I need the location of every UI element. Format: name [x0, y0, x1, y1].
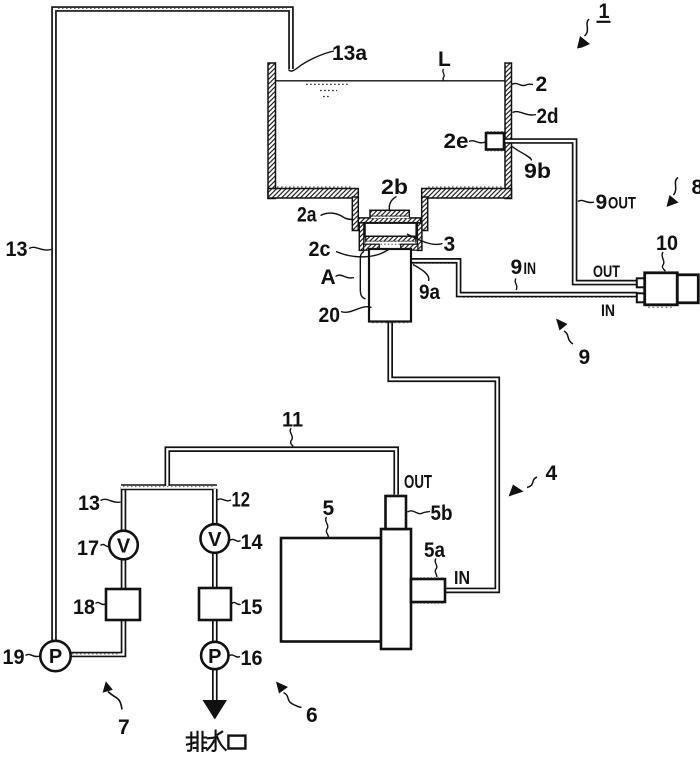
- white bar under 3: [366, 241, 416, 244]
- svg-text:2e: 2e: [444, 130, 469, 153]
- fitting 2c right block: [401, 244, 418, 250]
- drain arrow: [203, 700, 228, 720]
- svg-text:18: 18: [73, 596, 95, 619]
- wire pipe 11: [167, 449, 396, 496]
- cup body: [365, 223, 417, 237]
- wire pipe 12 segments: [212, 489, 218, 525]
- unit 18 box: [106, 589, 140, 620]
- arrow 8: [674, 178, 679, 196]
- svg-text:10: 10: [656, 232, 678, 255]
- svg-text:IN: IN: [454, 568, 470, 588]
- arrow 6: [284, 693, 302, 708]
- tank 2 right wall: [505, 63, 512, 199]
- pump 5 head block: [381, 529, 411, 649]
- pump 5 outlet port 5b: [386, 496, 407, 529]
- svg-text:19: 19: [3, 646, 25, 669]
- svg-text:5b: 5b: [431, 502, 453, 525]
- svg-text:OUT: OUT: [608, 195, 636, 213]
- fitting 2c left block: [364, 244, 380, 250]
- wire pump19 outlet to unit18: [70, 620, 124, 655]
- drain outlet text: [187, 731, 226, 752]
- svg-text:2b: 2b: [381, 176, 408, 199]
- svg-text:9: 9: [596, 191, 608, 214]
- unit 15 box: [199, 588, 231, 620]
- chiller unit 10 rear body: [677, 275, 698, 303]
- tank 2 bottom left strip: [268, 189, 358, 199]
- svg-text:13: 13: [78, 492, 100, 515]
- wire pipe 13 (tank feed, top + left run): [54, 9, 291, 642]
- valve V14: [201, 524, 230, 553]
- svg-text:15: 15: [241, 596, 263, 619]
- arrow 1: [585, 19, 590, 36]
- wire pipe 9OUT: [504, 141, 638, 283]
- svg-text:IN: IN: [601, 301, 615, 320]
- svg-text:A: A: [321, 266, 336, 289]
- svg-text:IN: IN: [524, 260, 537, 278]
- pump P19: [40, 641, 70, 671]
- wire valve17 to manifold: [121, 487, 127, 532]
- svg-text:1: 1: [599, 0, 610, 23]
- svg-text:2a: 2a: [297, 204, 317, 227]
- manifold junction pipe: [121, 484, 217, 490]
- white bar under 2b: [371, 216, 409, 218]
- pump P16: [201, 642, 228, 669]
- svg-text:OUT: OUT: [404, 472, 432, 492]
- svg-text:16: 16: [241, 647, 263, 670]
- chiller unit 10 main body: [645, 273, 678, 305]
- filter bar 3: [366, 236, 416, 241]
- svg-text:9b: 9b: [524, 160, 551, 183]
- valve V17: [109, 531, 138, 560]
- sump step wall left: [352, 197, 358, 231]
- svg-text:5a: 5a: [424, 539, 445, 562]
- drain outlet text kuchi: [228, 736, 245, 749]
- svg-text:OUT: OUT: [593, 262, 620, 281]
- lid 2b bar: [370, 210, 409, 216]
- svg-text:L: L: [438, 48, 451, 71]
- svg-text:9a: 9a: [419, 281, 440, 304]
- chiller unit 10 OUT port: [637, 278, 645, 287]
- svg-text:P: P: [208, 646, 221, 668]
- wire pipe 4 loop: [390, 322, 497, 591]
- sump casing left: [359, 223, 364, 251]
- tank floor dotted texture: [277, 186, 504, 188]
- wire unit18 to valve17: [121, 559, 127, 590]
- svg-text:V: V: [117, 535, 131, 557]
- svg-text:9: 9: [511, 256, 523, 279]
- svg-text:V: V: [208, 529, 222, 551]
- liquid surface dots: [306, 84, 348, 96]
- settling vessel 20: [369, 249, 411, 322]
- svg-text:20: 20: [319, 304, 341, 327]
- svg-text:2c: 2c: [309, 238, 331, 261]
- bracket A: [360, 252, 365, 300]
- svg-text:14: 14: [241, 531, 263, 554]
- sump casing right: [417, 223, 422, 251]
- svg-text:9: 9: [579, 346, 591, 369]
- svg-text:3: 3: [444, 233, 456, 256]
- svg-text:17: 17: [77, 537, 99, 560]
- svg-text:13a: 13a: [332, 42, 367, 65]
- tank 2 bottom right strip: [422, 189, 512, 199]
- svg-text:4: 4: [546, 462, 558, 485]
- pump 5 inlet port 5a: [411, 579, 445, 602]
- svg-text:12: 12: [232, 489, 251, 512]
- wire pipe 9a / 9IN: [411, 261, 638, 295]
- chiller unit 10 IN port: [637, 293, 645, 302]
- svg-text:2: 2: [536, 73, 548, 96]
- arrow 7: [108, 692, 122, 710]
- flange 2a plate: [358, 218, 420, 223]
- svg-text:8: 8: [692, 176, 700, 199]
- svg-text:11: 11: [282, 409, 303, 432]
- svg-text:7: 7: [118, 716, 130, 739]
- arrow 4: [527, 477, 537, 488]
- svg-text:6: 6: [306, 704, 318, 727]
- sump step wall right: [422, 197, 428, 231]
- svg-text:P: P: [49, 646, 62, 668]
- pump 5 main body: [281, 538, 381, 642]
- sensor 2e box: [486, 133, 504, 150]
- svg-text:2d: 2d: [537, 105, 559, 128]
- liquid level line L: [276, 80, 506, 82]
- svg-text:5: 5: [323, 497, 335, 520]
- svg-text:13: 13: [6, 238, 28, 261]
- tank 2 left wall: [268, 63, 276, 199]
